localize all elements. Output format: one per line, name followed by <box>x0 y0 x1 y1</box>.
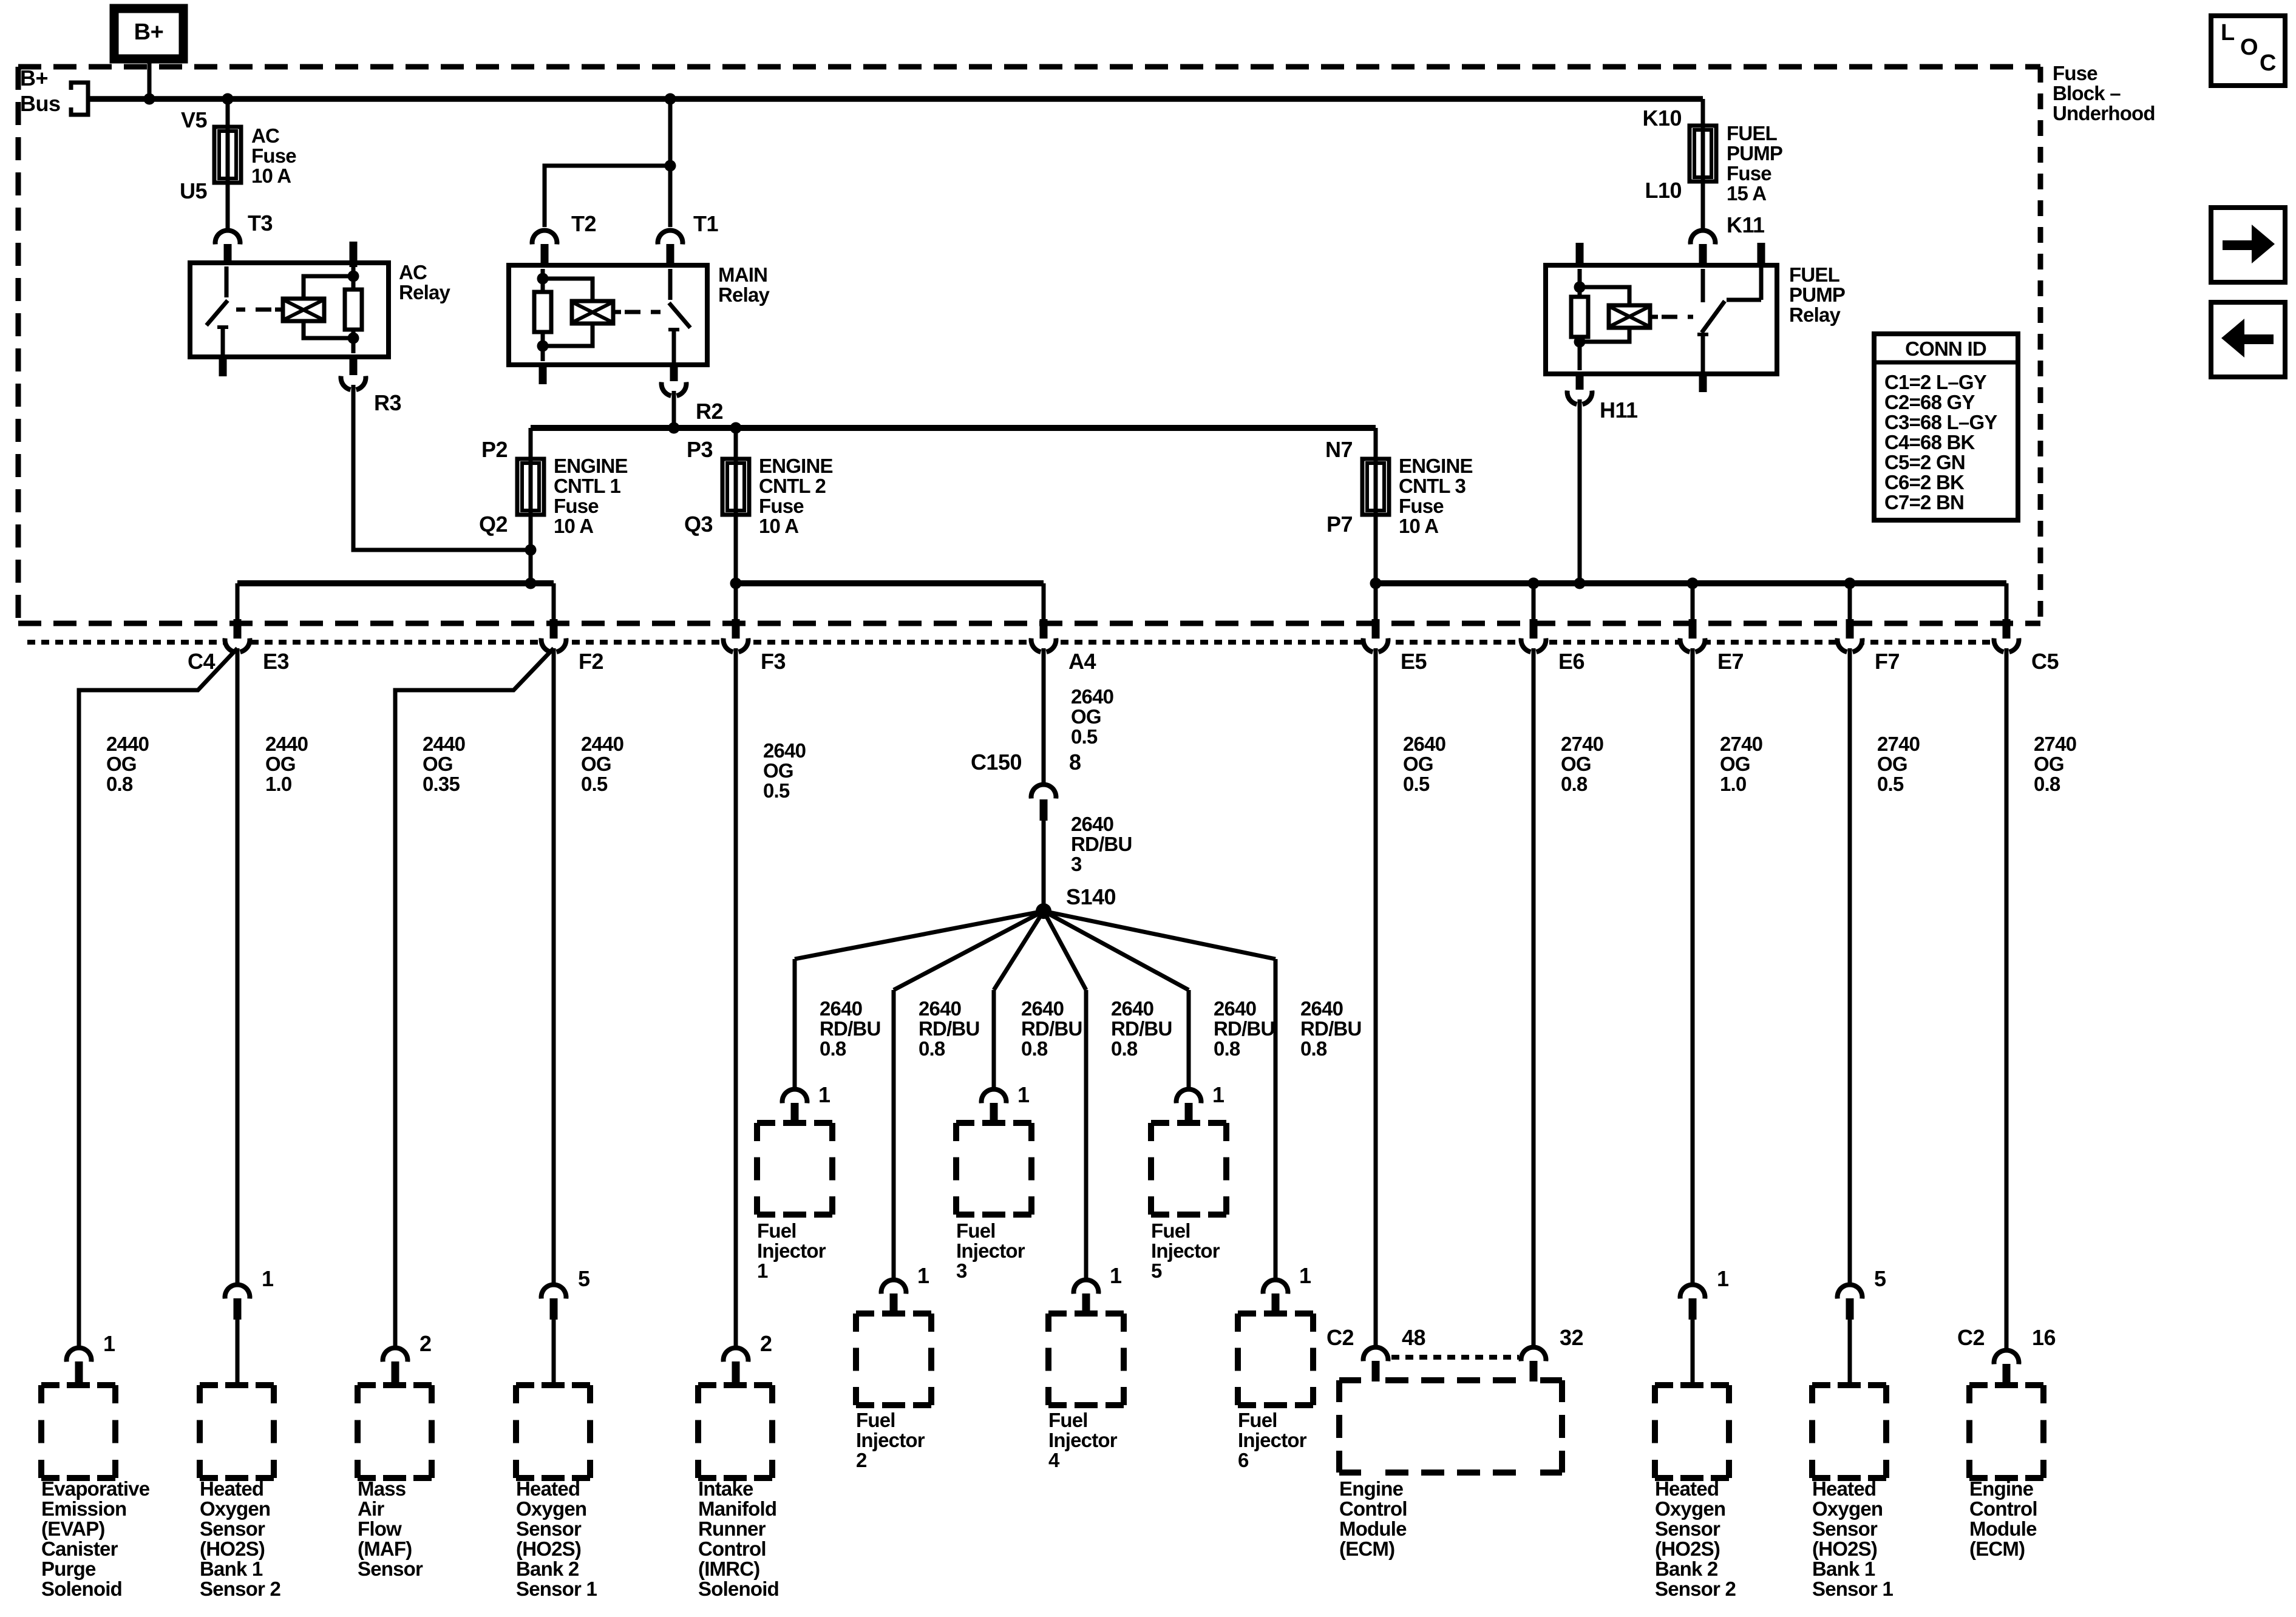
svg-text:R3: R3 <box>374 390 401 415</box>
svg-text:2740: 2740 <box>1561 733 1603 755</box>
svg-text:C7=2 BN: C7=2 BN <box>1884 491 1964 514</box>
right distribution bus <box>1376 580 2006 586</box>
svg-text:(HO2S): (HO2S) <box>516 1537 581 1560</box>
connector C5 <box>1996 629 2017 650</box>
pin MAIN relay switch bottom to R2 <box>670 362 678 381</box>
connector ECM right C2 pin 16 <box>1996 1352 2017 1373</box>
next page arrow box <box>2211 208 2285 282</box>
svg-text:(HO2S): (HO2S) <box>1655 1537 1720 1560</box>
wire F7 to HO2S B1S1 <box>1848 648 1852 1283</box>
connector fuel injector 1 pin 1 <box>784 1091 805 1112</box>
IMRC solenoid box <box>698 1382 716 1388</box>
svg-text:2640: 2640 <box>1403 733 1445 755</box>
wire E5 to ECM pin48 <box>1374 648 1378 1345</box>
svg-text:6: 6 <box>1238 1449 1249 1471</box>
connector fuel injector 5 pin 1 <box>1178 1091 1199 1112</box>
pin ECM 16 <box>2003 1364 2011 1386</box>
svg-text:2640: 2640 <box>1071 813 1113 835</box>
connector R2 <box>664 373 684 394</box>
wire fuel pump fuse to K11 <box>1701 181 1705 228</box>
svg-text:Q3: Q3 <box>684 512 713 537</box>
junction P3 drop <box>730 422 742 434</box>
svg-text:10 A: 10 A <box>1399 515 1438 537</box>
HO2S bank2 sensor1 box <box>516 1382 534 1388</box>
svg-text:F3: F3 <box>761 649 786 674</box>
pin EVAP canister purge solenoid <box>75 1361 83 1386</box>
svg-text:AC: AC <box>399 261 427 283</box>
B+ bus wire <box>88 96 1703 102</box>
wire B+ to bus <box>148 55 152 99</box>
svg-text:FUEL: FUEL <box>1789 263 1840 286</box>
svg-text:2: 2 <box>419 1331 432 1356</box>
svg-text:Heated: Heated <box>1655 1477 1719 1500</box>
fuel injector 1 box <box>757 1120 775 1126</box>
svg-text:Manifold: Manifold <box>698 1497 776 1520</box>
svg-text:2740: 2740 <box>2034 733 2076 755</box>
wire C150 to S140 <box>1042 821 1046 907</box>
svg-text:Module: Module <box>1339 1517 1407 1540</box>
svg-text:B+: B+ <box>134 19 164 45</box>
svg-text:E6: E6 <box>1558 649 1584 674</box>
connector T3 <box>217 232 238 253</box>
svg-text:ENGINE: ENGINE <box>554 455 628 477</box>
svg-text:Sensor: Sensor <box>1812 1517 1878 1540</box>
HO2S bank1 sensor2 box <box>200 1382 218 1388</box>
svg-text:C2: C2 <box>1957 1325 1985 1350</box>
svg-text:P3: P3 <box>687 437 713 462</box>
svg-text:C3=68 L–GY: C3=68 L–GY <box>1884 411 1997 433</box>
svg-text:RD/BU: RD/BU <box>820 1017 881 1040</box>
svg-text:O: O <box>2240 35 2258 60</box>
svg-text:2440: 2440 <box>423 733 465 755</box>
svg-text:Flow: Flow <box>358 1517 402 1540</box>
svg-text:Control: Control <box>698 1537 766 1560</box>
wire injector 3 drop <box>992 990 996 1087</box>
svg-text:2440: 2440 <box>265 733 308 755</box>
connector MAF sensor pin 2 <box>385 1350 406 1371</box>
wire T2 branch <box>545 166 670 227</box>
svg-text:2740: 2740 <box>1720 733 1762 755</box>
pin HO2S bank2 sensor2 <box>1689 1298 1697 1320</box>
wire F2 to HO2S B2S1 <box>552 648 556 1283</box>
svg-text:OG: OG <box>106 753 137 775</box>
svg-text:0.8: 0.8 <box>2034 773 2060 795</box>
connector C150 <box>1033 787 1054 807</box>
fuse block underhood dashed border top <box>18 64 2040 70</box>
svg-text:Sensor: Sensor <box>516 1517 582 1540</box>
junction T2 branch <box>665 160 676 172</box>
svg-text:Injector: Injector <box>956 1239 1025 1262</box>
svg-text:RD/BU: RD/BU <box>1021 1017 1082 1040</box>
junction AC fuse tap <box>222 93 234 105</box>
fuse block dashed border right <box>2038 67 2043 623</box>
B+ power box <box>114 8 183 59</box>
junction A4 branch <box>730 578 742 589</box>
svg-text:0.5: 0.5 <box>1071 725 1098 748</box>
wire S140 to injector 1 <box>795 911 1044 959</box>
pin T1 into MAIN relay <box>667 244 674 267</box>
B+ bus bar bracket <box>71 83 88 115</box>
svg-text:V5: V5 <box>181 107 208 132</box>
svg-text:C1=2 L–GY: C1=2 L–GY <box>1884 371 1987 393</box>
svg-text:Fuse: Fuse <box>251 144 296 167</box>
fuel injector 5 box <box>1151 1120 1169 1126</box>
svg-text:Sensor 1: Sensor 1 <box>1812 1578 1893 1600</box>
pin fuse block F2 <box>550 619 558 639</box>
junction H11 bus <box>1574 578 1586 589</box>
svg-text:0.5: 0.5 <box>1403 773 1430 795</box>
svg-text:Relay: Relay <box>1789 303 1841 326</box>
connector H11 <box>1569 382 1590 402</box>
wire A4 to C150 <box>1042 648 1046 782</box>
wire HO2S bank1 sensor2 pin to box <box>236 1320 240 1385</box>
pin T3 into AC relay <box>224 244 232 267</box>
svg-text:Oxygen: Oxygen <box>516 1497 586 1520</box>
svg-text:OG: OG <box>763 759 793 782</box>
ECM box <box>1339 1377 1361 1383</box>
svg-text:0.5: 0.5 <box>763 779 790 802</box>
svg-text:2640: 2640 <box>1300 997 1343 1020</box>
svg-text:Control: Control <box>1969 1497 2037 1520</box>
A4 distribution bus <box>736 580 1044 586</box>
svg-text:1: 1 <box>757 1259 768 1282</box>
junction F7 drop <box>1844 578 1856 589</box>
svg-text:ENGINE: ENGINE <box>759 455 833 477</box>
wire C4-E3 drop <box>236 583 240 620</box>
wire T1 drop <box>668 166 673 227</box>
svg-text:OG: OG <box>1877 753 1907 775</box>
svg-text:L10: L10 <box>1645 178 1682 203</box>
connector T2 <box>534 232 555 253</box>
pin fuel injector 2 <box>890 1293 898 1315</box>
svg-text:16: 16 <box>2032 1325 2056 1350</box>
wire bus to T1 junction <box>668 99 673 166</box>
pin fuse block E6 <box>1530 619 1538 639</box>
relay output bus <box>531 425 1376 431</box>
svg-text:Oxygen: Oxygen <box>1655 1497 1725 1520</box>
svg-text:K11: K11 <box>1727 212 1765 237</box>
wire S140 to injector 2 <box>894 911 1044 990</box>
svg-text:T2: T2 <box>571 211 596 236</box>
connector E5 <box>1365 629 1386 650</box>
svg-text:OG: OG <box>1561 753 1591 775</box>
pin fuse block E5 <box>1372 619 1380 639</box>
junction B+ drop <box>144 93 155 105</box>
svg-text:OG: OG <box>423 753 453 775</box>
fuel injector 4 box <box>1048 1310 1067 1317</box>
svg-text:K10: K10 <box>1642 106 1682 131</box>
svg-text:Fuel: Fuel <box>1151 1219 1190 1242</box>
svg-text:2: 2 <box>856 1449 867 1471</box>
svg-text:0.35: 0.35 <box>423 773 460 795</box>
connector T1 <box>660 232 681 253</box>
svg-text:Sensor: Sensor <box>358 1558 423 1580</box>
pin ECM 48 <box>1372 1361 1380 1381</box>
svg-text:1: 1 <box>818 1082 830 1107</box>
pin fuel injector 3 <box>990 1103 998 1124</box>
junction left distribution bus <box>525 578 537 589</box>
fuse ENGINE CNTL 1 P2-Q2 <box>517 459 544 515</box>
svg-text:2640: 2640 <box>763 739 806 762</box>
svg-text:F2: F2 <box>579 649 603 674</box>
svg-text:Relay: Relay <box>718 283 770 306</box>
svg-text:1: 1 <box>262 1266 274 1291</box>
svg-text:Control: Control <box>1339 1497 1407 1520</box>
svg-text:15 A: 15 A <box>1727 182 1766 205</box>
svg-text:C: C <box>2260 50 2276 76</box>
wire engine cntl3 fuse output E5 <box>1374 515 1378 620</box>
svg-text:Heated: Heated <box>1812 1477 1876 1500</box>
connector HO2S bank1 sensor2 pin 1 <box>227 1287 248 1307</box>
svg-text:H11: H11 <box>1600 398 1638 422</box>
svg-text:C4=68 BK: C4=68 BK <box>1884 431 1975 453</box>
fuse block dashed border left <box>16 67 21 623</box>
svg-text:Bus: Bus <box>20 91 61 116</box>
svg-text:0.8: 0.8 <box>1214 1037 1240 1060</box>
svg-text:1: 1 <box>1110 1263 1122 1288</box>
svg-text:Relay: Relay <box>399 281 451 303</box>
pin fuse block F7 <box>1846 619 1854 639</box>
wire R2 down to bus <box>672 391 676 428</box>
pin fuse block A4 <box>1040 619 1048 639</box>
svg-text:Fuel: Fuel <box>1048 1409 1088 1431</box>
svg-text:2640: 2640 <box>919 997 961 1020</box>
svg-text:L: L <box>2221 20 2235 46</box>
svg-text:2440: 2440 <box>581 733 623 755</box>
connector F2 <box>543 629 564 650</box>
junction R2 bus <box>668 422 680 434</box>
svg-text:P7: P7 <box>1326 512 1353 537</box>
svg-text:1: 1 <box>1717 1266 1729 1291</box>
svg-text:Fuse: Fuse <box>1399 495 1444 517</box>
svg-text:Bank 1: Bank 1 <box>200 1558 263 1580</box>
connector fuel injector 2 pin 1 <box>883 1282 904 1303</box>
fuel injector 6 box <box>1238 1310 1256 1317</box>
LOC page symbol box <box>2211 16 2285 86</box>
svg-text:OG: OG <box>1720 753 1750 775</box>
wire F7 drop <box>1848 583 1852 620</box>
svg-text:OG: OG <box>581 753 611 775</box>
pin fuel pump relay coil top stub <box>1576 243 1584 268</box>
svg-text:2440: 2440 <box>106 733 149 755</box>
CONN ID table <box>1874 334 2018 520</box>
svg-text:AC: AC <box>251 124 279 147</box>
pin K11 into fuel pump relay <box>1699 244 1707 267</box>
pin fuel pump relay NO contact top <box>1758 243 1765 268</box>
wire F3 to IMRC <box>734 648 738 1346</box>
connector IMRC solenoid pin 2 <box>725 1350 746 1371</box>
wire injector 5 drop <box>1187 990 1191 1087</box>
connector HO2S bank1 sensor1 pin 5 <box>1839 1287 1860 1307</box>
svg-text:Injector: Injector <box>1048 1429 1118 1451</box>
junction E6 drop <box>1528 578 1540 589</box>
svg-text:Injector: Injector <box>757 1239 826 1262</box>
svg-text:Intake: Intake <box>698 1477 753 1500</box>
svg-text:Injector: Injector <box>856 1429 925 1451</box>
fuse AC Fuse 10A V5-U5 <box>214 127 241 183</box>
svg-text:PUMP: PUMP <box>1727 142 1782 164</box>
svg-text:3: 3 <box>956 1259 967 1282</box>
svg-text:ENGINE: ENGINE <box>1399 455 1473 477</box>
svg-text:0.5: 0.5 <box>581 773 608 795</box>
svg-text:Injector: Injector <box>1151 1239 1220 1262</box>
connector E7 <box>1682 629 1703 650</box>
wire S140 to injector 6 <box>1044 911 1275 959</box>
wire injector 2 drop <box>892 990 896 1278</box>
wire HO2S bank2 sensor2 pin to box <box>1691 1320 1695 1385</box>
fuel injector 2 box <box>856 1310 874 1317</box>
svg-text:(IMRC): (IMRC) <box>698 1558 760 1580</box>
fuse ENGINE CNTL 3 N7-P7 <box>1362 459 1389 515</box>
svg-text:Fuse: Fuse <box>554 495 599 517</box>
svg-text:32: 32 <box>1560 1325 1583 1350</box>
connector fuel injector 6 pin 1 <box>1265 1282 1286 1303</box>
pin HO2S bank2 sensor1 <box>550 1298 558 1320</box>
svg-text:(HO2S): (HO2S) <box>1812 1537 1877 1560</box>
connector F7 <box>1839 629 1860 650</box>
connector ECM pin 32 <box>1523 1349 1544 1370</box>
svg-text:4: 4 <box>1048 1449 1060 1471</box>
svg-text:5: 5 <box>1151 1259 1162 1282</box>
wire E7 drop <box>1691 583 1695 620</box>
svg-text:Purge: Purge <box>41 1558 96 1580</box>
svg-text:Module: Module <box>1969 1517 2037 1540</box>
svg-text:0.8: 0.8 <box>1021 1037 1048 1060</box>
HO2S bank1 sensor1 box <box>1812 1382 1830 1388</box>
svg-text:PUMP: PUMP <box>1789 283 1845 306</box>
relay FUEL PUMP Relay <box>1546 265 1777 374</box>
svg-text:OG: OG <box>1071 705 1101 728</box>
svg-text:Evaporative: Evaporative <box>41 1477 150 1500</box>
svg-text:Canister: Canister <box>41 1537 118 1560</box>
svg-text:P2: P2 <box>481 437 508 462</box>
splice S140 <box>1036 903 1051 919</box>
MAF sensor box <box>358 1382 376 1388</box>
svg-text:C5=2 GN: C5=2 GN <box>1884 451 1965 473</box>
pin T2 into MAIN relay <box>541 244 549 267</box>
svg-text:Engine: Engine <box>1339 1477 1404 1500</box>
pin MAF sensor <box>392 1361 399 1386</box>
svg-text:T3: T3 <box>248 211 273 236</box>
pin fuse block E7 <box>1689 619 1697 639</box>
svg-text:0.8: 0.8 <box>106 773 133 795</box>
wire E6 drop <box>1532 583 1536 620</box>
svg-text:Block –: Block – <box>2053 82 2121 104</box>
svg-text:0.8: 0.8 <box>1561 773 1588 795</box>
svg-text:Fuel: Fuel <box>856 1409 895 1431</box>
connector A4 <box>1033 629 1054 650</box>
fuel injector 3 box <box>956 1120 974 1126</box>
svg-text:CNTL 1: CNTL 1 <box>554 475 621 497</box>
junction T1 tap <box>665 93 676 105</box>
pin HO2S bank1 sensor1 <box>1846 1298 1854 1320</box>
wire R3 to Q2 junction <box>353 385 531 550</box>
svg-text:Sensor 2: Sensor 2 <box>200 1578 280 1600</box>
svg-text:2640: 2640 <box>1214 997 1256 1020</box>
svg-text:2640: 2640 <box>1021 997 1064 1020</box>
svg-text:CONN ID: CONN ID <box>1905 337 1986 360</box>
connector HO2S bank2 sensor1 pin 5 <box>543 1287 564 1307</box>
connector R3 <box>343 367 364 388</box>
svg-text:0.5: 0.5 <box>1877 773 1904 795</box>
svg-text:C2: C2 <box>1326 1325 1354 1350</box>
pin fuel pump relay switch bottom stub <box>1699 371 1707 392</box>
pin fuse block E3 <box>234 619 242 639</box>
svg-text:F7: F7 <box>1875 649 1900 674</box>
svg-text:Fuse: Fuse <box>759 495 804 517</box>
wire injector 4 drop <box>1084 990 1089 1278</box>
svg-text:FUEL: FUEL <box>1727 122 1778 144</box>
pin MAIN relay coil bottom stub <box>539 362 547 384</box>
wire F2 drop <box>552 583 556 620</box>
svg-text:(MAF): (MAF) <box>358 1537 412 1560</box>
svg-text:RD/BU: RD/BU <box>1214 1017 1275 1040</box>
svg-text:5: 5 <box>1874 1266 1886 1291</box>
wire H11 to bus <box>1578 399 1582 583</box>
svg-text:C2=68 GY: C2=68 GY <box>1884 391 1975 413</box>
wire bus to fuel pump fuse <box>1701 99 1705 126</box>
pin fuel injector 4 <box>1082 1293 1090 1315</box>
wire A4 drop <box>1042 583 1046 620</box>
connector EVAP canister purge solenoid pin 1 <box>69 1350 89 1371</box>
svg-text:C5: C5 <box>2031 649 2059 674</box>
fuse block dashed border bottom <box>18 621 2040 626</box>
pin HO2S bank1 sensor2 <box>234 1298 242 1320</box>
HO2S bank2 sensor2 box <box>1655 1382 1673 1388</box>
svg-text:(ECM): (ECM) <box>1969 1537 2025 1560</box>
svg-text:2740: 2740 <box>1877 733 1920 755</box>
svg-text:RD/BU: RD/BU <box>1111 1017 1172 1040</box>
EVAP canister purge solenoid box <box>41 1382 59 1388</box>
svg-text:Sensor 1: Sensor 1 <box>516 1578 597 1600</box>
svg-text:Engine: Engine <box>1969 1477 2034 1500</box>
svg-text:E3: E3 <box>263 649 289 674</box>
svg-text:N7: N7 <box>1325 437 1353 462</box>
wire bus to AC fuse <box>226 99 230 127</box>
relay MAIN Relay <box>509 265 707 365</box>
wire C4 diagonal to EVAP column <box>79 648 237 1346</box>
wire bus to engine cntl2 fuse <box>734 428 738 459</box>
svg-text:0.8: 0.8 <box>919 1037 945 1060</box>
svg-text:0.8: 0.8 <box>820 1037 846 1060</box>
wire S140 to injector 3 <box>994 911 1044 990</box>
svg-text:Injector: Injector <box>1238 1429 1307 1451</box>
svg-text:0.8: 0.8 <box>1111 1037 1138 1060</box>
svg-text:1: 1 <box>1212 1082 1224 1107</box>
svg-text:2: 2 <box>760 1331 772 1356</box>
svg-text:1: 1 <box>1017 1082 1030 1107</box>
pin fuse block C5 <box>2003 619 2011 639</box>
svg-text:Fuse: Fuse <box>1727 162 1771 185</box>
svg-text:C6=2 BK: C6=2 BK <box>1884 471 1965 493</box>
svg-text:T1: T1 <box>693 211 718 236</box>
svg-text:Solenoid: Solenoid <box>41 1578 122 1600</box>
wire bus to engine cntl3 fuse <box>1374 428 1378 459</box>
connector fuel injector 4 pin 1 <box>1076 1282 1096 1303</box>
svg-text:E7: E7 <box>1717 649 1744 674</box>
svg-text:5: 5 <box>578 1266 590 1291</box>
junction right bus at E5 <box>1370 578 1382 589</box>
svg-text:10 A: 10 A <box>251 164 291 187</box>
svg-text:10 A: 10 A <box>554 515 593 537</box>
svg-text:8: 8 <box>1069 750 1081 775</box>
connector E3 <box>227 629 248 650</box>
svg-text:A4: A4 <box>1068 649 1096 674</box>
svg-text:RD/BU: RD/BU <box>1300 1017 1362 1040</box>
wire injector 6 drop <box>1274 959 1278 1278</box>
pin fuse block F3 <box>732 619 740 639</box>
pin fuel injector 6 <box>1272 1293 1280 1315</box>
